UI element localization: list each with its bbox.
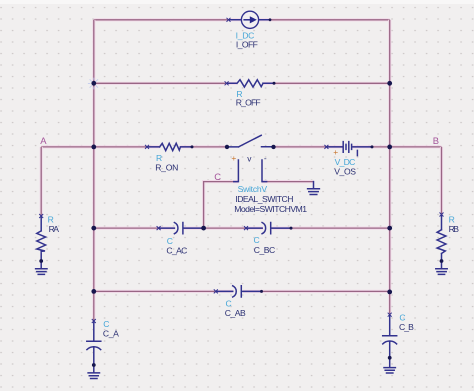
svg-text:IDEAL_SWITCH: IDEAL_SWITCH (235, 194, 293, 204)
R_OFF pin 2 dot (273, 82, 276, 85)
R_OFF pin 1 tick (225, 81, 229, 85)
current source I_DC arrow (243, 16, 256, 23)
junction x=94 bottom rail (91, 289, 96, 294)
C_AB pin 1 tick (214, 289, 218, 293)
svg-text:R_ON: R_ON (155, 162, 178, 172)
junction x=390 node B rail (387, 145, 392, 150)
ground below RB (436, 261, 447, 274)
switch left terminal dot (225, 145, 229, 149)
wire C_AC rail left (94, 227, 175, 230)
junction x=94 C_AC rail (91, 226, 96, 231)
wire bottom rail right (C_AB to x=390) (243, 290, 390, 293)
wire R_OFF rail right (263, 82, 390, 85)
wire node A to R_ON (41, 145, 159, 148)
C_A pin 1 tick (92, 319, 96, 323)
wire x=390 down to C_B (388, 292, 391, 315)
I_DC pin 2 dot (269, 18, 272, 21)
I_DC pin 1 tick (227, 18, 231, 22)
resistor R_OFF (227, 80, 274, 87)
wire left vertical bus x=94 (92, 20, 95, 292)
wire node C to switch minus-pin riser (204, 182, 239, 229)
svg-text:RB: RB (449, 224, 460, 234)
C_BC pin 1 tick (244, 226, 248, 230)
svg-text:C: C (254, 235, 260, 245)
R_ON pin 1 tick (145, 145, 149, 149)
svg-text:V_OS: V_OS (334, 166, 356, 176)
resistor RA (37, 216, 46, 261)
capacitor C_B (383, 315, 397, 358)
current source I_DC leads (229, 19, 271, 21)
wire switch plus-pin to ground (262, 180, 314, 183)
svg-text:B: B (433, 135, 439, 146)
svg-text:R: R (48, 215, 54, 225)
ground below RA (36, 261, 47, 274)
svg-text:C: C (103, 319, 109, 329)
wire top rail right (I_DC to x=390) (259, 18, 390, 21)
battery V_DC minus tick (356, 150, 358, 155)
svg-text:R_OFF: R_OFF (236, 97, 261, 107)
svg-text:+: + (333, 147, 338, 157)
C_AB pin 2 dot (260, 290, 263, 293)
RB pin 2 dot (440, 259, 444, 263)
svg-text:C: C (399, 313, 405, 323)
svg-text:A: A (40, 135, 47, 146)
C_B pin 2 dot (388, 356, 392, 360)
svg-text:R: R (156, 153, 162, 163)
battery V_DC plates (343, 142, 351, 153)
junction x=390 R_OFF rail (387, 81, 392, 86)
capacitor C_A (87, 321, 101, 365)
wire V_DC to node B corner (352, 145, 441, 148)
wire switch to V_DC (274, 145, 343, 148)
svg-text:Model=SWITCHVM1: Model=SWITCHVM1 (234, 204, 307, 214)
junction x=94 R_OFF rail (91, 81, 96, 86)
wire R_OFF rail left (94, 82, 237, 85)
C_A pin 2 dot (92, 363, 96, 367)
svg-text:C: C (167, 236, 173, 246)
R_ON pin 2 dot (191, 145, 194, 148)
resistor RB (437, 215, 446, 262)
wire node A down to RA (40, 147, 43, 216)
RA pin 2 dot (39, 259, 43, 263)
V_DC pin 1 tick (324, 145, 328, 149)
wire right vertical bus x=390 (388, 20, 391, 292)
wire node B down to RB (440, 147, 443, 215)
switch SwitchV lever and contacts (227, 135, 274, 147)
battery V_DC leads (326, 146, 372, 148)
ground below C_A (88, 365, 99, 379)
selection glint at junction x=94 R_OFF rail (88, 78, 98, 90)
junction x=390 bottom rail (387, 290, 392, 295)
wire top rail left (x=94 to I_DC) (94, 18, 242, 21)
junction x=94 node A rail (91, 145, 96, 150)
svg-text:+: + (231, 153, 236, 163)
switch right terminal dot (271, 145, 275, 149)
wire C_AC to C_BC (184, 227, 263, 230)
svg-text:C: C (214, 171, 221, 182)
wire x=94 down to C_A (92, 291, 95, 321)
svg-text:C_B: C_B (399, 322, 414, 332)
C_BC pin 2 dot (290, 227, 293, 230)
capacitor C_BC (246, 223, 291, 234)
svg-text:R: R (449, 215, 455, 225)
ground below C_B (384, 358, 395, 373)
V_DC pin 2 dot (371, 145, 374, 148)
junction x=390 C_BC rail (387, 226, 392, 231)
svg-text:I_OFF: I_OFF (236, 40, 258, 50)
wire bottom rail left (to C_AB) (94, 290, 234, 293)
junction node C riser at C_AC rail (201, 226, 206, 231)
svg-text:SwitchV: SwitchV (238, 184, 268, 194)
RB pin 1 tick (440, 213, 444, 217)
svg-text:C_A: C_A (103, 329, 119, 339)
ground at switch plus-pin wire (308, 182, 320, 195)
svg-text:C_AC: C_AC (166, 246, 187, 256)
RA pin 1 tick (39, 214, 43, 218)
C_B pin 1 tick (388, 313, 392, 317)
wire C_BC rail right (272, 227, 390, 230)
capacitor C_AC (159, 223, 204, 234)
wire R_ON to switch (180, 145, 227, 148)
svg-text:RA: RA (49, 224, 60, 234)
capacitor C_AB (216, 286, 262, 297)
svg-text:C_BC: C_BC (254, 245, 275, 255)
current source I_DC circle (241, 11, 258, 28)
resistor R_ON (147, 143, 192, 150)
switch SwitchV control pins (234, 160, 267, 182)
C_AC pin 1 tick (157, 226, 161, 230)
svg-text:-: - (264, 153, 267, 163)
svg-text:C_AB: C_AB (225, 308, 246, 318)
